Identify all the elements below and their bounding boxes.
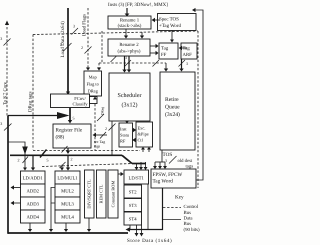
dashed line from top boundary down at x102 — [101, 31, 103, 63]
wire Scheduler down into Inst Status RF — [125, 121, 129, 124]
box Constant ROM — [108, 170, 118, 218]
wire Classify down into Register File — [68, 108, 72, 124]
node Insts input label — [108, 2, 168, 8]
wire operand bus into LD/ADD1 — [31, 155, 35, 170]
wire Register File down to operand bus — [66, 148, 70, 154]
box Inst Status RF — [119, 123, 133, 147]
slash 5 on operand bus — [40, 150, 49, 163]
node Control Bus label — [184, 204, 199, 216]
svg-text:Spec TOS: Spec TOS — [159, 17, 179, 23]
wire Rename 2 to Tag FF upper — [150, 44, 159, 48]
dashed To K7 Core line with up arrow — [5, 21, 9, 116]
wire dashed rename tags to Retire Queue — [164, 63, 168, 72]
wire Rename 2 to Tag FF lower — [150, 51, 159, 55]
wire store operand drop 2 — [139, 162, 143, 170]
svg-text:2: 2 — [71, 157, 73, 162]
svg-text:Tag: Tag — [161, 46, 169, 52]
svg-text:Control: Control — [184, 204, 199, 210]
wire feedback from FPSW up right side into Spec TOS — [192, 8, 203, 180]
wire Load Data bus — [66, 8, 70, 95]
svg-text:(88): (88) — [56, 135, 65, 141]
svg-text:(abs->phys): (abs->phys) — [118, 49, 141, 55]
node src Tag sigs label — [94, 140, 105, 149]
wire Rename 1 to Rename 2 — [124, 29, 128, 39]
svg-text:Bus: Bus — [184, 210, 192, 216]
svg-text:Key: Key — [175, 195, 184, 201]
svg-text:FCnv/: FCnv/ — [74, 96, 86, 101]
wire control into LD/MUL1 — [60, 165, 64, 171]
svg-text:LD/ADD1: LD/ADD1 — [23, 176, 44, 182]
node Data Bus label — [184, 216, 201, 233]
slash 2 on add operand drop — [18, 157, 29, 164]
node DReg small label — [101, 107, 105, 115]
box Tag FF — [159, 43, 178, 59]
svg-text:(stack->abs): (stack->abs) — [118, 23, 142, 29]
svg-text:DReg tags: DReg tags — [28, 91, 34, 112]
wire DIV SQRT to result bus — [87, 218, 91, 232]
svg-text:LD/ST1: LD/ST1 — [129, 176, 145, 182]
svg-text:Retire: Retire — [165, 97, 179, 103]
dashed control top boundary — [33, 31, 198, 35]
wire Rename 2 to Scheduler right port — [127, 56, 131, 73]
box Register File — [53, 124, 91, 148]
slash 3 on tag-retire wire — [179, 60, 189, 67]
wire operand bus diagonal jog — [122, 155, 132, 163]
box ADD2 — [21, 184, 46, 197]
wire LD/ST1 store data down to result bus — [147, 184, 149, 230]
svg-text:3: 3 — [165, 158, 167, 163]
svg-text:ARF: ARF — [183, 52, 193, 58]
node 5 write ports label — [73, 116, 75, 121]
slash 3 on result bus vertical — [0, 121, 11, 131]
slash on DReg output dashed — [97, 114, 104, 121]
svg-text:ADD4: ADD4 — [26, 215, 39, 221]
dashed DReg tags line down left — [32, 35, 34, 150]
wire result bus vertical left — [7, 116, 9, 234]
box MUL4 — [55, 210, 80, 223]
svg-text:(3x24): (3x24) — [165, 112, 180, 118]
box Rename 2 — [108, 39, 150, 56]
svg-text:Load Flags: Load Flags — [82, 14, 88, 36]
node TOS label — [163, 152, 173, 158]
svg-text:LD/MUL1: LD/MUL1 — [57, 176, 78, 182]
wire spread to FPSW arrows — [155, 161, 165, 163]
dashed Load Flags line — [86, 8, 90, 71]
slash 2 on scheduler issue wire — [105, 124, 116, 132]
svg-text:Store Data (1x64): Store Data (1x64) — [127, 238, 172, 244]
wire Insts into Rename 1 — [125, 8, 130, 17]
svg-text:FF: FF — [161, 52, 167, 58]
box Rename 1 — [108, 16, 151, 29]
key dashed sample — [163, 207, 181, 209]
wire operand bus to store unit — [132, 163, 146, 165]
svg-text:TOS: TOS — [163, 152, 173, 158]
svg-text:Map: Map — [89, 75, 98, 80]
wire tag into Rename 2 — [140, 32, 144, 39]
svg-text:Rename 1: Rename 1 — [120, 18, 140, 24]
box Retire Queue — [160, 72, 195, 150]
box DIV SQRT CTL — [85, 170, 95, 218]
svg-text:ST4: ST4 — [129, 217, 137, 223]
node Key label — [175, 195, 184, 201]
dashed DReg output line from Map box down — [93, 97, 97, 151]
wire into FPSW port 1 — [153, 162, 157, 169]
svg-text:src Tag: src Tag — [94, 140, 105, 144]
svg-text:2: 2 — [81, 45, 83, 50]
wire store operand drop 1 — [135, 164, 139, 171]
svg-text:2: 2 — [18, 158, 20, 163]
wire Spec TOS to Rename 1 — [152, 18, 160, 22]
dashed horizontal control to retire queue — [99, 62, 166, 64]
dashed status collection line above operand bus — [33, 150, 140, 152]
slash 2 below Rename 2 — [111, 56, 117, 62]
box Scheduler — [109, 73, 150, 121]
wire Inst Status RF to Exc Pipe Ctl — [133, 128, 137, 132]
slash on mul control drop — [60, 162, 66, 168]
svg-text:To K7 Core: To K7 Core — [2, 82, 8, 105]
box FPSW FPCW Tag Word — [151, 169, 196, 188]
slash 2 on Load Flags line — [81, 45, 92, 54]
wire control into LD/ADD1 — [23, 153, 27, 171]
svg-text:Insts (3) [FP, 3DNow!, MMX]: Insts (3) [FP, 3DNow!, MMX] — [108, 2, 168, 8]
wire MUL4 to result bus — [64, 223, 68, 232]
svg-text:3: 3 — [0, 36, 2, 41]
wire Exc Pipe Ctl back to Inst Status RF — [132, 138, 136, 142]
svg-text:MUL4: MUL4 — [61, 215, 74, 221]
svg-text:DIV/SQRT CTL: DIV/SQRT CTL — [87, 179, 92, 209]
svg-text:Tag: Tag — [183, 46, 191, 52]
wire up arrow into Exc Pipe Ctl bottom right — [147, 147, 151, 152]
svg-text:Load Data (2x64): Load Data (2x64) — [60, 21, 66, 58]
wire ST4 down to bus — [129, 225, 131, 230]
wire operand bus into LD/MUL1 — [66, 155, 70, 170]
svg-text:&Pipe: &Pipe — [138, 132, 149, 137]
dashed drop into Map Flag box — [97, 63, 101, 71]
svg-text:Flag to: Flag to — [87, 82, 100, 87]
wire into FPSW port 3 — [163, 162, 167, 169]
wire store data out 1 — [135, 225, 139, 237]
svg-text:(90 bits): (90 bits) — [184, 227, 201, 233]
svg-text:Rename 2: Rename 2 — [119, 42, 139, 48]
svg-text:3: 3 — [73, 24, 75, 29]
svg-text:5: 5 — [73, 116, 75, 121]
dashed control right boundary — [197, 31, 199, 188]
slash 3 old dest tags — [165, 156, 177, 164]
node Store Data label — [127, 238, 172, 244]
box LD/MUL1 — [55, 171, 80, 184]
box LD/ST1 — [124, 170, 149, 184]
svg-text:3: 3 — [0, 121, 2, 126]
wire Tag boxes down to Retire Queue — [179, 59, 183, 72]
wire store data out 2 — [140, 225, 144, 237]
node old dest tags label — [178, 158, 194, 170]
svg-text:Statu: Statu — [120, 133, 130, 138]
wire mul iteration loop left — [51, 188, 55, 204]
svg-text:old dest: old dest — [178, 158, 193, 164]
svg-text:Constant ROM: Constant ROM — [111, 181, 116, 208]
wire Constant ROM into LD/ST1 — [118, 172, 124, 176]
wire mul loop down to result bus — [49, 203, 53, 232]
slash 3 on top dashed boundary — [72, 24, 79, 35]
slash 3 on To K7 Core line — [0, 36, 10, 46]
svg-text:3: 3 — [125, 55, 127, 60]
svg-text:Bus: Bus — [184, 221, 192, 227]
svg-text:DReg: DReg — [101, 107, 105, 115]
box ADD4 — [21, 210, 46, 223]
wire src tags into Register File right — [93, 132, 108, 139]
svg-text:5: 5 — [47, 158, 49, 163]
svg-text:MUL3: MUL3 — [61, 202, 74, 208]
svg-text:Inst: Inst — [120, 127, 127, 132]
box MUL2 — [55, 184, 80, 197]
svg-text:ST2: ST2 — [129, 190, 137, 196]
box ST2 — [124, 185, 142, 198]
svg-text:ST3: ST3 — [129, 203, 137, 209]
node small connector box right of Classify — [90, 97, 98, 104]
wire add result out left upper — [11, 185, 21, 189]
box FCnv Classify — [51, 94, 90, 108]
svg-text:Data: Data — [184, 216, 194, 222]
node Load Flags label — [82, 14, 88, 36]
box Spec TOS + Tag Word — [158, 14, 197, 31]
svg-text:Classify: Classify — [72, 102, 88, 107]
node Load Data label — [60, 21, 66, 58]
box ST3 — [124, 199, 142, 212]
wire store operand drop 3 — [144, 162, 148, 170]
wire up arrow into Exc Pipe Ctl bottom left — [141, 147, 145, 152]
svg-text:+Tag Word: +Tag Word — [159, 23, 181, 29]
slash on dashed line near retire queue — [153, 60, 160, 67]
svg-text:2: 2 — [105, 126, 107, 131]
node DReg tags label — [28, 91, 34, 112]
svg-text:Scheduler: Scheduler — [118, 92, 142, 99]
svg-text:3: 3 — [186, 61, 188, 66]
svg-text:Register File: Register File — [56, 128, 83, 134]
box MUL3 — [55, 197, 80, 210]
svg-text:Ctl: Ctl — [138, 138, 144, 143]
box REM CTL — [97, 170, 107, 218]
wire Retire Queue bottom to status registers — [161, 150, 163, 162]
svg-text:Exc.: Exc. — [138, 126, 146, 131]
wire operand bus below Register File — [10, 154, 122, 156]
wire Scheduler issue down to operand bus — [111, 121, 113, 155]
wire ADD4 to result bus — [28, 223, 32, 232]
wire add result out left lower — [11, 201, 21, 205]
svg-text:2: 2 — [60, 42, 62, 47]
svg-text:Queue: Queue — [165, 105, 180, 111]
wire Tag ARF to Tag FF — [179, 46, 187, 50]
svg-text:REM CTL: REM CTL — [99, 184, 104, 203]
svg-text:DReg: DReg — [88, 89, 99, 94]
wire bypass branch to operand bus — [8, 142, 28, 155]
svg-text:sigs: sigs — [94, 145, 101, 149]
box Exc and Pipe Ctl — [136, 122, 153, 147]
key solid sample — [163, 219, 181, 221]
svg-text:(3x12): (3x12) — [122, 102, 138, 109]
wire writeback horizontal into Register File input — [8, 112, 70, 119]
box ADD3 — [21, 197, 46, 210]
svg-text:Tag Word: Tag Word — [153, 179, 174, 185]
node To K7 Core label — [2, 82, 8, 105]
slash 3 on dashed control horizontal — [125, 55, 132, 67]
box LD/ADD1 — [21, 171, 46, 184]
box ST4 — [124, 212, 142, 225]
box Map Flag to DReg — [84, 71, 102, 96]
wire store-side bus with left arrow — [126, 188, 163, 232]
wire into FPSW port 2 — [158, 162, 162, 169]
svg-text:FPSW, FPCW: FPSW, FPCW — [153, 172, 183, 178]
slash 2 on mul operand drop — [62, 146, 73, 162]
svg-text:ADD2: ADD2 — [26, 189, 39, 195]
slash 2 on Load Data bus — [60, 42, 72, 51]
dashed control distribution line above units — [42, 164, 133, 167]
wire Rename 2 to Scheduler left port — [122, 56, 126, 73]
box Tag ARF — [181, 43, 197, 59]
svg-text:ADD3: ADD3 — [26, 202, 39, 208]
svg-text:MUL2: MUL2 — [61, 189, 74, 195]
wire Spec TOS down to Tag FF — [170, 30, 174, 43]
wire result data bus bottom — [8, 232, 128, 234]
svg-text:RF: RF — [120, 139, 126, 144]
